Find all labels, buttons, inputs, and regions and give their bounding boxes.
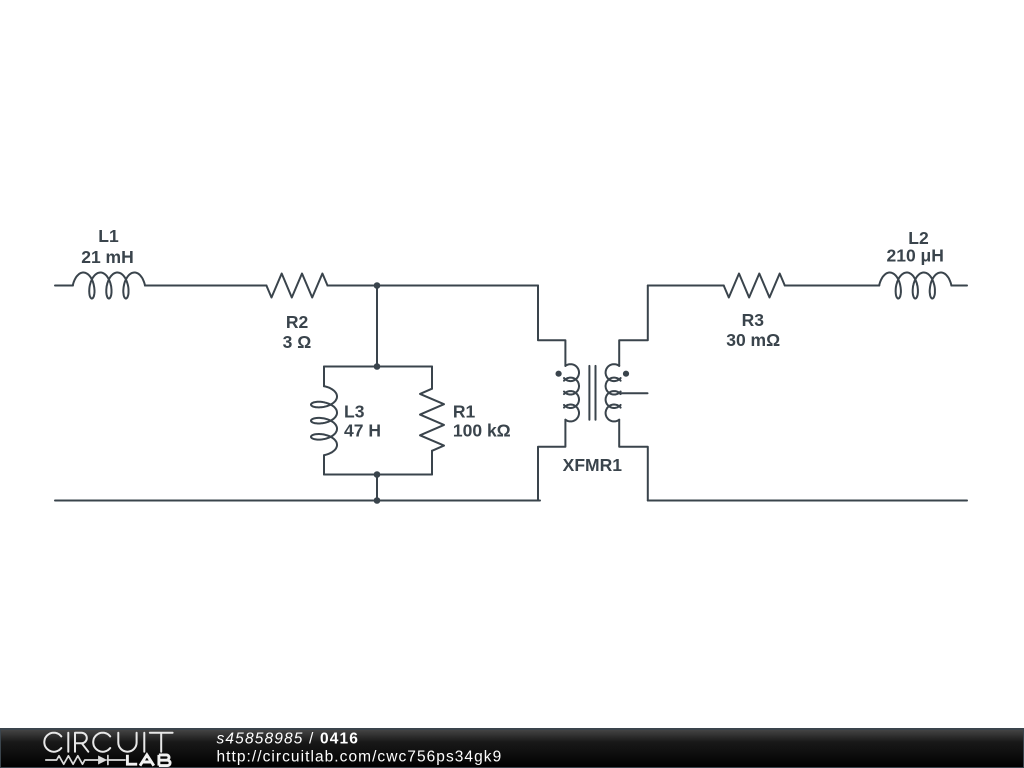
wire R1 bottom lead (431, 451, 433, 475)
svg-text:XFMR1: XFMR1 (563, 455, 623, 475)
wire R2 to transformer top-left corner (328, 285, 539, 287)
wire bottom rail left (55, 500, 540, 502)
logo diode (98, 756, 107, 765)
logo wordmark CIRCUIT (44, 733, 172, 752)
node junction top (R2/XFMR/parallel) (374, 282, 381, 289)
svg-text:3 Ω: 3 Ω (283, 332, 312, 352)
wire junction down to parallel box top (376, 286, 378, 367)
svg-text:L3: L3 (344, 402, 365, 422)
wire L2 to right terminal (951, 285, 967, 287)
svg-text:s45858985 / 0416: s45858985 / 0416 (217, 731, 360, 748)
svg-text:100 kΩ: 100 kΩ (453, 420, 511, 440)
phase dot XFMR1 primary (556, 371, 562, 377)
wire parallel box bottom (324, 474, 432, 476)
wire L3 top lead (323, 367, 325, 387)
wire L3 bottom lead (323, 455, 325, 474)
wire box bottom to ground rail (376, 475, 378, 501)
wire XFMR1 secondary bottom lead (619, 420, 648, 501)
transformer XFMR1 secondary winding (606, 364, 621, 421)
wire XFMR1 primary top lead (538, 286, 565, 366)
node parallel box top (374, 363, 381, 370)
transformer XFMR1 primary winding (564, 364, 579, 421)
footer bar background (0, 729, 1024, 768)
svg-text:210 μH: 210 μH (886, 246, 943, 266)
node parallel box bottom (374, 471, 381, 478)
svg-text:R2: R2 (286, 312, 309, 332)
inductor L1 coil (73, 273, 145, 299)
logo wordmark LAB (127, 755, 170, 766)
wire parallel box top (324, 366, 432, 368)
svg-text:R1: R1 (453, 402, 476, 422)
svg-text:30 mΩ: 30 mΩ (726, 330, 780, 350)
logo resistor zigzag (46, 756, 98, 764)
svg-text:L1: L1 (98, 226, 119, 246)
wire R1 top lead (431, 367, 433, 389)
wire XFMR1 secondary center tap stub (619, 392, 647, 394)
svg-text:http://circuitlab.com/cwc756ps: http://circuitlab.com/cwc756ps34gk9 (217, 748, 503, 765)
resistor R2 zigzag (266, 274, 327, 298)
wire XFMR1 primary bottom lead (538, 420, 565, 501)
wire left terminal to L1 (55, 285, 73, 287)
resistor R1 zigzag (420, 389, 444, 451)
inductor L3 coil (311, 386, 337, 455)
wire XFMR1 to R3 (648, 285, 724, 287)
wire XFMR1 secondary top lead (619, 286, 648, 366)
inductor L2 coil (879, 273, 951, 299)
resistor R3 zigzag (724, 274, 785, 298)
transformer XFMR1 core (589, 366, 595, 420)
phase dot XFMR1 secondary (623, 371, 629, 377)
svg-text:21 mH: 21 mH (81, 247, 134, 267)
wire R3 to L2 (785, 285, 879, 287)
node bottom rail junction (374, 497, 381, 504)
svg-text:R3: R3 (742, 310, 765, 330)
svg-text:47 H: 47 H (344, 420, 381, 440)
wire bottom rail right (648, 500, 967, 502)
wire L1 to R2 (145, 285, 266, 287)
